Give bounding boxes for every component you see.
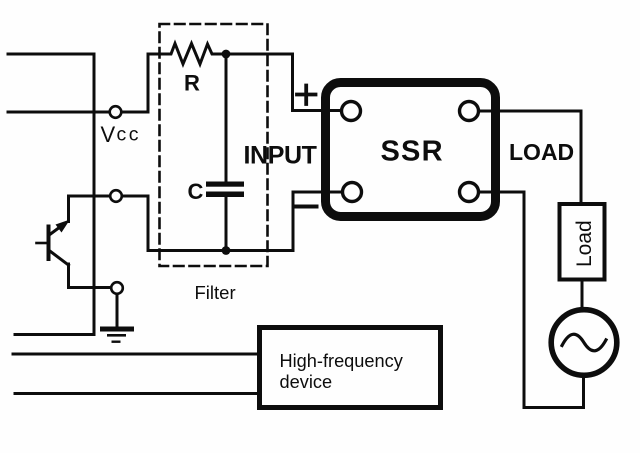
wire capacitor to bottom junction (225, 197, 228, 247)
wire high-frequency feed 1 (13, 353, 258, 356)
terminal SSR bottom-right (460, 183, 479, 202)
svg-text:device: device (280, 372, 333, 392)
AC source (551, 310, 617, 376)
terminal SSR bottom-left (343, 183, 362, 202)
wire bottom filter rail (122, 196, 293, 251)
wire bottom rail to minus terminal (293, 192, 342, 251)
wire high-frequency feed 2 (15, 392, 258, 395)
svg-text:Load: Load (573, 220, 596, 267)
transistor Q1 (37, 220, 71, 266)
svg-text:High-frequency: High-frequency (280, 351, 404, 371)
svg-text:INPUT: INPUT (244, 142, 317, 170)
svg-text:Filter: Filter (195, 282, 236, 303)
wire load box to AC source (581, 281, 584, 309)
capacitor C (206, 182, 244, 198)
high-frequency device box (260, 328, 441, 408)
wire collector lead (69, 196, 111, 222)
filter box (dashed) (160, 24, 268, 266)
wire SSR bottom-right stub (479, 191, 525, 194)
svg-text:C: C (188, 179, 204, 204)
svg-text:cc: cc (117, 124, 142, 146)
label Vcc (101, 122, 142, 147)
node junction R-C (222, 50, 231, 59)
wire SSR to load box (479, 111, 582, 202)
wire junction to plus terminal (226, 54, 341, 111)
terminal emitter (111, 282, 123, 294)
SSR U1 body (326, 83, 496, 217)
terminal input 2 (110, 190, 122, 202)
wire emitter lead (69, 264, 112, 288)
wire return path (524, 192, 584, 408)
svg-text:V: V (101, 122, 116, 147)
terminal SSR top-right (460, 102, 479, 121)
wire top-left horizontal (8, 53, 94, 56)
plus sign (297, 86, 316, 105)
wire junction down to capacitor (225, 54, 228, 182)
wire to ground (116, 294, 119, 328)
resistor R (166, 44, 221, 65)
node junction bottom (222, 246, 231, 255)
wire Vcc rail from left (8, 111, 109, 114)
label high-frequency device (280, 351, 404, 392)
minus sign (296, 205, 317, 209)
wire main left vertical (93, 54, 96, 335)
wire Vcc terminal to filter input (122, 54, 167, 112)
load box (560, 204, 605, 280)
terminal Vcc (110, 106, 122, 118)
terminal SSR top-left (342, 102, 361, 121)
ground (100, 327, 134, 343)
svg-text:SSR: SSR (381, 136, 444, 168)
svg-text:LOAD: LOAD (509, 139, 574, 165)
wire bottom-left rail (15, 333, 94, 336)
svg-text:R: R (184, 71, 200, 96)
